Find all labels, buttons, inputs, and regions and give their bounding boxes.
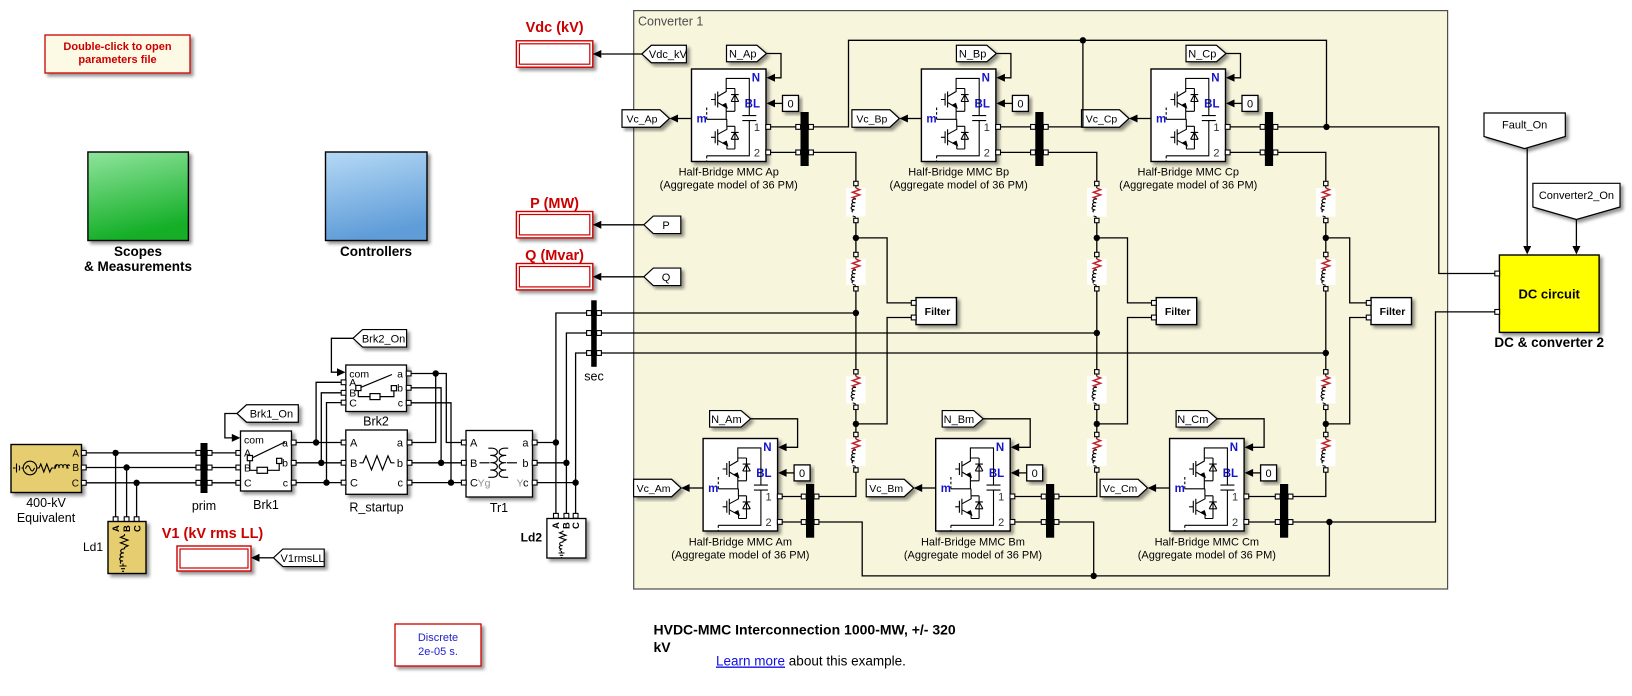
svg-text:C: C [571,522,582,529]
Brk2 switch symbol [356,375,397,400]
DC positive pole wiring [813,40,1326,127]
svg-text:parameters file: parameters file [78,54,156,66]
tag Vc_Cm [1100,479,1148,497]
MMC block Cm [1170,439,1245,532]
display Vdc [516,41,592,67]
svg-text:Tr1: Tr1 [490,501,508,515]
wire midpoint to lower arm C [1325,353,1327,370]
svg-text:2: 2 [1213,147,1219,159]
wire Fault_On to DC circuit [1526,149,1528,247]
svg-text:1: 1 [754,122,760,134]
svg-text:A: A [111,525,122,532]
load Ld2 [554,513,559,518]
wires prim to Brk1 [212,452,239,454]
svg-text:m: m [941,483,951,495]
wires Tr1 to sec bus and Ld2 [537,442,556,444]
svg-text:(Aggregate model of 36 PM): (Aggregate model of 36 PM) [1119,180,1257,192]
svg-text:prim: prim [192,499,216,513]
MMC block Bp [921,69,996,162]
svg-text:N_Am: N_Am [711,414,742,426]
wire Brk2_On to com [331,338,353,372]
junction lower arm A [855,410,857,433]
breaker Brk2 [346,365,407,412]
svg-text:Brk2: Brk2 [363,415,389,429]
svg-text:DC & converter 2: DC & converter 2 [1494,335,1604,350]
sec bus bar [591,300,597,367]
svg-text:Filter: Filter [1380,306,1406,318]
wire N_Ap to N port [767,54,782,78]
svg-text:B: B [350,458,357,470]
svg-text:b: b [522,458,528,470]
svg-text:BL: BL [975,99,990,111]
breaker Brk1 [241,431,292,491]
svg-text:P (MW): P (MW) [530,196,579,212]
constant 0 (Cm) [1261,465,1277,481]
tag V1rmsLL [273,549,324,567]
tag Vc_Ap [622,110,670,128]
svg-text:1: 1 [1232,491,1238,503]
junction lower arm C [1325,410,1327,433]
svg-text:C: C [132,525,143,532]
svg-text:N: N [1211,73,1219,85]
MMC block Am [703,439,778,532]
wire 0 to BL (Cp) [1234,102,1243,104]
wire Converter2_On to DC circuit [1575,220,1577,248]
junction lower arm B [1096,410,1098,433]
svg-text:N: N [982,73,990,85]
svg-text:V1rmsLL: V1rmsLL [281,553,325,565]
arm reactor lower2 C [1316,439,1335,466]
svg-text:Scopes: Scopes [114,244,162,259]
svg-text:N_Ap: N_Ap [729,48,757,60]
svg-text:Half-Bridge MMC Bm: Half-Bridge MMC Bm [921,537,1025,549]
svg-text:C: C [72,479,79,490]
svg-text:Half-Bridge MMC Cm: Half-Bridge MMC Cm [1155,537,1260,549]
arm reactor upper1 A [846,188,865,217]
arm reactor upper1 C [1316,188,1335,217]
svg-text:Y: Y [516,478,523,490]
svg-text:Vdc_kV: Vdc_kV [649,49,688,61]
transformer Tr1 [466,431,533,498]
svg-text:C: C [350,478,358,490]
svg-text:com: com [244,435,264,447]
svg-text:sec: sec [584,370,603,384]
svg-text:& Measurements: & Measurements [84,259,192,274]
wire midpoint to lower arm B [1096,333,1098,370]
svg-text:Filter: Filter [1165,306,1191,318]
bus bar Cp [1265,112,1273,166]
svg-text:B: B [122,525,133,532]
svg-text:1: 1 [765,491,771,503]
svg-text:2: 2 [1232,517,1238,529]
tag Q [644,268,681,286]
tag Brk2_On [353,330,407,348]
svg-text:a: a [397,368,403,380]
svg-text:Ld1: Ld1 [83,540,103,554]
wires MMC Bm to bus [1015,496,1042,498]
arm reactor lower1 A [846,376,865,403]
wire N_Cp to N port [1226,54,1241,78]
svg-text:kV: kV [654,639,672,655]
svg-text:(Aggregate model of 36 PM): (Aggregate model of 36 PM) [1138,550,1276,562]
svg-text:N: N [996,442,1004,454]
AC phase lines from sec to converter legs [601,312,856,314]
svg-text:m: m [1156,113,1166,125]
annotation: Double-click to open parameters file [45,35,190,73]
wires source to prim bus [86,452,196,454]
svg-text:c: c [398,398,403,410]
wire m port to Vc_Ap [677,118,692,120]
wire 0 to BL (Ap) [774,102,783,104]
wire to midpoint B [1096,291,1098,333]
svg-text:Vc_Bm: Vc_Bm [869,483,903,495]
svg-text:2: 2 [984,147,990,159]
svg-text:C: C [349,397,357,409]
svg-text:B: B [470,458,477,470]
wire m port to Vc_Bm [921,487,936,489]
wire bus Ap to upper arm [813,152,856,181]
svg-text:Brk2_On: Brk2_On [362,333,405,345]
svg-text:1: 1 [984,122,990,134]
svg-text:0: 0 [1032,468,1038,480]
tag Vc_Bm [866,479,914,497]
svg-text:c: c [398,478,404,490]
display Q [516,264,592,290]
svg-text:b: b [397,383,403,395]
arm reactor upper1 B [1087,188,1106,217]
wire 0 to BL (Bp) [1004,102,1013,104]
wire lower arm to bus Bm [1059,472,1097,496]
svg-text:A: A [72,449,79,460]
svg-text:0: 0 [1247,99,1253,111]
bus bar Cm [1280,484,1288,538]
svg-text:Yg: Yg [478,478,491,490]
wire midpoint to lower arm A [855,313,857,370]
tag N_Am [710,411,751,428]
wire m port to Vc_Bp [907,118,922,120]
tag N_Cm [1176,411,1217,428]
svg-text:b: b [397,458,403,470]
svg-text:0: 0 [799,468,805,480]
tag Converter2_On [1533,183,1620,219]
svg-text:V1 (kV rms LL): V1 (kV rms LL) [162,526,264,542]
constant 0 (Bp) [1012,95,1028,111]
arm reactor upper2 C [1316,259,1335,285]
wire N_Bp to N port [996,54,1011,78]
wires MMC Ap to bus [771,126,796,128]
svg-text:A: A [350,438,358,450]
svg-text:0: 0 [1017,99,1023,111]
bus bar Ap [801,112,809,166]
svg-text:Fault_On: Fault_On [1502,120,1547,132]
svg-text:BL: BL [1223,468,1238,480]
svg-text:2: 2 [765,517,771,529]
svg-text:2: 2 [754,147,760,159]
junction upper arm A [855,223,857,252]
constant 0 (Am) [794,465,810,481]
svg-text:m: m [708,483,718,495]
arm reactor lower2 B [1087,439,1106,466]
DC circuit block [1499,255,1599,332]
wires Filter C to arm junctions [1326,238,1367,303]
svg-text:Half-Bridge MMC Ap: Half-Bridge MMC Ap [679,167,779,179]
arm reactor lower1 C [1316,376,1335,403]
svg-text:1: 1 [1213,122,1219,134]
svg-text:N: N [763,442,771,454]
svg-text:BL: BL [1204,99,1219,111]
wire bus Bp to upper arm [1048,152,1097,181]
svg-text:N_Bm: N_Bm [944,414,975,426]
wires MMC Cm to bus [1249,496,1276,498]
tag Vc_Bp [852,110,900,128]
svg-text:Converter 1: Converter 1 [638,15,703,29]
svg-text:Ld2: Ld2 [521,531,543,545]
wire Brk1_On to com [225,414,237,438]
wires Brk2 outputs merge to Tr1 [411,374,461,443]
svg-text:0: 0 [787,99,793,111]
MMC block Cp [1151,69,1226,162]
svg-text:Controllers: Controllers [340,244,412,259]
wire to midpoint A [855,291,857,313]
Filter B [1156,298,1197,325]
Filter C [1371,298,1412,325]
svg-text:Half-Bridge MMC Bp: Half-Bridge MMC Bp [908,167,1009,179]
svg-text:BL: BL [989,468,1004,480]
svg-text:Learn more about this example.: Learn more about this example. [716,654,906,669]
wire N_Bm to N port [983,419,1030,448]
svg-text:BL: BL [745,99,760,111]
svg-text:Vc_Am: Vc_Am [637,483,671,495]
wire 0 to BL (Cm) [1252,472,1261,474]
svg-text:Vc_Ap: Vc_Ap [627,113,658,125]
prim bus bar [201,443,208,493]
wire 0 to BL (Am) [786,472,795,474]
svg-text:m: m [697,113,707,125]
svg-text:Vdc (kV): Vdc (kV) [526,20,584,36]
svg-text:(Aggregate model of 36 PM): (Aggregate model of 36 PM) [671,550,809,562]
svg-text:N_Bp: N_Bp [959,48,987,60]
wires MMC Bp to bus [1001,126,1031,128]
Converter 1 subsystem area [634,11,1448,589]
svg-text:(Aggregate model of 36 PM): (Aggregate model of 36 PM) [890,180,1028,192]
wire to midpoint C [1325,291,1327,353]
wires Filter B to arm junctions [1097,238,1152,303]
bus bar Am [806,484,814,538]
tag N_Ap [727,45,767,62]
svg-text:Converter2_On: Converter2_On [1539,190,1614,202]
MMC block Bm [936,439,1011,532]
wires Filter A to arm junctions [856,238,912,303]
svg-text:Vc_Cp: Vc_Cp [1086,113,1118,125]
wire N_Cm to N port [1217,419,1264,448]
source 400-kV Equivalent [11,445,82,493]
arm reactor lower1 B [1087,376,1106,403]
MMC block Ap [692,69,767,162]
wires MMC Am to bus [782,496,801,498]
wire m port to Vc_Cp [1137,118,1152,120]
tag N_Bm [942,411,983,428]
Discrete 2e-05 s. solver block [395,624,481,666]
svg-text:b: b [282,458,288,470]
svg-text:A: A [551,522,562,529]
svg-text:Filter: Filter [925,306,951,318]
wire m port to Vc_Am [689,487,704,489]
tag N_Cp [1186,45,1226,62]
svg-text:Vc_Bp: Vc_Bp [856,113,887,125]
load Ld1 [113,517,118,522]
svg-text:Brk1: Brk1 [253,498,279,512]
svg-text:Equivalent: Equivalent [17,511,76,525]
svg-text:m: m [926,113,936,125]
svg-text:c: c [283,477,288,489]
svg-text:R_startup: R_startup [349,501,403,515]
tag Brk1_On [237,405,298,423]
wire P to display [601,224,644,226]
constant 0 (Ap) [783,95,799,111]
svg-text:C: C [244,478,252,490]
svg-text:Brk1_On: Brk1_On [250,408,293,420]
svg-text:m: m [1175,483,1185,495]
DC negative pole wiring [819,522,1330,576]
svg-text:N: N [752,73,760,85]
svg-text:2e-05 s.: 2e-05 s. [418,646,458,658]
block R_startup [346,430,408,494]
svg-text:DC circuit: DC circuit [1518,287,1580,302]
wire Q to display [601,276,644,278]
svg-text:HVDC-MMC Interconnection 1000-: HVDC-MMC Interconnection 1000-MW, +/- 32… [654,622,956,638]
svg-text:Half-Bridge MMC Cp: Half-Bridge MMC Cp [1138,167,1239,179]
wire N_Am to N port [751,419,798,448]
tag Vc_Am [634,479,682,497]
junction upper arm B [1096,223,1098,252]
svg-text:Double-click to open: Double-click to open [63,41,171,53]
wire m port to Vc_Cm [1155,487,1170,489]
svg-text:c: c [523,478,529,490]
arm reactor lower2 A [846,439,865,466]
wire 0 to BL (Bm) [1018,472,1026,474]
subsystem Controllers [326,152,428,241]
svg-text:(Aggregate model of 36 PM): (Aggregate model of 36 PM) [660,180,798,192]
svg-text:N: N [1230,442,1238,454]
svg-text:N_Cp: N_Cp [1188,48,1216,60]
arm reactor upper2 B [1087,259,1106,285]
svg-text:1: 1 [998,491,1004,503]
bus bar Bm [1046,484,1054,538]
tag Fault_On [1484,113,1565,149]
wire V1rmsLL to display [260,557,274,559]
svg-text:Q (Mvar): Q (Mvar) [525,248,584,264]
junction upper arm C [1325,223,1327,252]
svg-text:2: 2 [998,517,1004,529]
display V1rmsLL [177,546,251,571]
wire Vdc_kV to display [601,53,642,55]
Brk1 switch symbol [247,442,285,473]
tag Vdc_kV [642,45,687,63]
tag Vc_Cp [1082,110,1130,128]
tag N_Bp [956,45,996,62]
svg-text:a: a [397,438,404,450]
svg-text:A: A [470,438,478,450]
constant 0 (Cp) [1242,95,1258,111]
svg-text:B: B [72,463,79,474]
svg-text:Discrete: Discrete [418,632,458,644]
Filter A [916,298,957,325]
wire lower arm to bus Cm [1293,472,1326,496]
svg-text:Q: Q [662,272,671,284]
svg-text:(Aggregate model of 36 PM): (Aggregate model of 36 PM) [904,550,1042,562]
constant 0 (Bm) [1027,465,1043,481]
svg-text:0: 0 [1266,468,1272,480]
svg-text:a: a [522,438,529,450]
svg-text:N_Cm: N_Cm [1177,414,1208,426]
tag P [644,216,681,234]
wire bus Cp to upper arm [1278,152,1326,181]
svg-text:Half-Bridge MMC Am: Half-Bridge MMC Am [689,537,792,549]
wires Brk1 outputs to R_startup and up to Brk2 [296,442,344,444]
svg-text:400-kV: 400-kV [26,496,66,510]
svg-text:Vc_Cm: Vc_Cm [1103,483,1138,495]
subsystem Scopes & Measurements [88,152,188,241]
wire lower arm to bus Am [819,472,856,496]
bus bar Bp [1035,112,1043,166]
wires MMC Cp to bus [1230,126,1260,128]
junction dots to Ld1 [112,450,118,456]
svg-text:P: P [662,220,669,232]
svg-text:BL: BL [756,468,771,480]
arm reactor upper2 A [846,259,865,285]
display P [516,212,592,238]
